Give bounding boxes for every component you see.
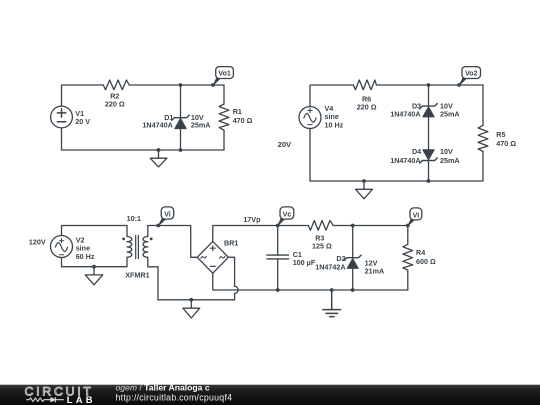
node junction ground right circuit (362, 179, 366, 183)
svg-text:LAB: LAB (67, 394, 96, 405)
svg-text:1N4740A: 1N4740A (390, 110, 420, 119)
svg-text:10 Hz: 10 Hz (325, 121, 344, 130)
svg-text:220 Ω: 220 Ω (105, 99, 125, 108)
capacitor C1 (267, 255, 289, 259)
svg-text:1N4740A: 1N4740A (142, 121, 172, 130)
svg-text:470 Ω: 470 Ω (233, 116, 253, 125)
D3 name labels (390, 102, 421, 119)
transformer XFMR1 primary winding (127, 237, 132, 258)
wire top rail right circuit (310, 85, 483, 106)
svg-text:60 Hz: 60 Hz (76, 252, 95, 261)
wire AC return rail to bridge right (158, 257, 238, 300)
wire secondary top to bridge left (148, 226, 197, 258)
resistor R2 value labels (105, 92, 125, 109)
resistor R5 (478, 125, 488, 151)
label 17Vp (243, 215, 261, 224)
V2 value label 120V (29, 237, 46, 246)
voltage source V1 (51, 106, 73, 128)
D2 value labels (365, 258, 385, 275)
C1 labels (293, 250, 316, 267)
svg-text:Vo2: Vo2 (465, 70, 477, 77)
node junction D2 bottom (351, 288, 355, 292)
svg-text:http://circuitlab.com/cpuuqf4: http://circuitlab.com/cpuuqf4 (116, 393, 233, 403)
wire zener D1 branch (180, 85, 182, 150)
svg-text:20V: 20V (278, 140, 292, 149)
ground symbol AC rail (183, 300, 200, 318)
svg-text:17Vp: 17Vp (243, 215, 261, 224)
BR1 name label (224, 239, 238, 248)
svg-text:XFMR1: XFMR1 (125, 271, 149, 280)
wire right branch R1 (223, 85, 225, 150)
node junction C1 bottom (276, 288, 280, 292)
svg-text:600 Ω: 600 Ω (416, 257, 436, 266)
wire zener D2 branch (352, 226, 354, 291)
resistor R5 labels (496, 130, 516, 148)
D1 name labels (142, 113, 173, 130)
ground symbol V2 loop (85, 267, 102, 285)
V2 labels (76, 236, 95, 261)
node junction earth ground tee (330, 288, 334, 292)
wire V1 bottom / bottom rail left circuit (62, 128, 225, 150)
node junction C1 top Vc (276, 224, 280, 228)
node junction ground AC rail (189, 298, 193, 302)
D2 name labels (315, 254, 345, 272)
svg-text:20 V: 20 V (75, 117, 90, 126)
svg-text:100 µF: 100 µF (293, 258, 316, 267)
node flag Vo1 (211, 67, 233, 87)
resistor R1 labels (233, 107, 253, 125)
bridge rectifier BR1 (197, 241, 228, 273)
zener diode D4 (420, 150, 438, 163)
svg-text:ogem / Taller Analoga c: ogem / Taller Analoga c (116, 383, 210, 393)
svg-text:1N4742A: 1N4742A (315, 263, 345, 272)
svg-text:VI: VI (413, 212, 420, 219)
V1 labels (75, 109, 90, 126)
svg-text:120V: 120V (29, 237, 46, 246)
XFMR1 ratio label 10:1 (127, 214, 141, 223)
zener diode D1 (172, 115, 190, 129)
wire bridge bottom DC negative rail with hop (213, 273, 408, 290)
svg-text:125 Ω: 125 Ω (312, 242, 332, 251)
wire resistor R4 branch (407, 270, 409, 290)
voltage source V4 sine (299, 107, 321, 129)
svg-text:Vc: Vc (283, 211, 292, 218)
wire zener D3 D4 branch (428, 85, 430, 181)
CircuitLab logo resistor squiggle and diode (27, 397, 64, 402)
D1 value labels (191, 113, 211, 130)
D4 name labels (390, 147, 421, 165)
resistor R6 labels (357, 94, 377, 111)
node junction D4 bottom (427, 179, 431, 183)
wire V2 bottom rail (62, 258, 128, 267)
voltage source V2 sine (51, 236, 73, 258)
resistor R4 (403, 244, 413, 270)
zener diode D2 (344, 255, 361, 268)
node junction D3 top (427, 83, 431, 87)
resistor R4 labels (416, 248, 436, 266)
svg-text:1N4740A: 1N4740A (390, 156, 420, 165)
svg-text:25mA: 25mA (191, 121, 211, 130)
D4 value labels (440, 147, 460, 165)
svg-text:220 Ω: 220 Ω (357, 102, 377, 111)
wire capacitor C1 branch (277, 226, 279, 291)
node flag Vo2 (457, 67, 480, 87)
svg-text:Vi: Vi (164, 211, 171, 218)
resistor R3 labels (312, 233, 332, 250)
svg-text:25mA: 25mA (440, 110, 460, 119)
svg-text:R1: R1 (233, 107, 242, 116)
zener diode D3 (420, 104, 438, 117)
node flag Vi (156, 207, 173, 228)
transformer XFMR1 core (136, 235, 139, 258)
wire V4 bottom (309, 129, 311, 182)
svg-text:BR1: BR1 (224, 239, 238, 248)
node junction D1 bottom (179, 148, 183, 152)
resistor R3 (308, 221, 333, 231)
wire bridge top to DC rail (213, 226, 408, 245)
wire V2 top rail to transformer primary (62, 226, 128, 237)
transformer XFMR1 secondary phase dot (150, 238, 153, 241)
earth ground symbol DC rail (323, 290, 341, 317)
wire secondary bottom jog (148, 257, 158, 300)
node junction ground left circuit (157, 148, 161, 152)
ground symbol right circuit (356, 181, 373, 199)
V4 labels (325, 104, 344, 130)
svg-text:Vo1: Vo1 (218, 70, 230, 77)
node junction ground V2 loop (92, 265, 96, 269)
ground symbol left circuit (150, 150, 167, 167)
wire top rail left circuit (62, 85, 225, 106)
V4 value label 20V (278, 140, 292, 149)
svg-text:25mA: 25mA (440, 156, 460, 165)
wire right branch R5 (482, 85, 484, 181)
resistor R2 (103, 80, 129, 90)
svg-text:R5: R5 (496, 130, 505, 139)
resistor R6 (353, 80, 376, 90)
svg-text:470 Ω: 470 Ω (496, 139, 516, 148)
XFMR1 name label (125, 271, 149, 280)
node junction D1 top (179, 83, 183, 87)
node flag VI (406, 208, 422, 228)
svg-text:10:1: 10:1 (127, 214, 141, 223)
transformer XFMR1 secondary winding (143, 237, 148, 258)
D3 value labels (440, 102, 460, 119)
transformer XFMR1 primary phase dot (122, 238, 125, 241)
resistor R1 (219, 104, 229, 130)
svg-text:21mA: 21mA (365, 266, 385, 275)
node junction D2 top (351, 224, 355, 228)
node flag Vc (278, 207, 294, 226)
wire bottom rail right circuit (310, 180, 483, 182)
